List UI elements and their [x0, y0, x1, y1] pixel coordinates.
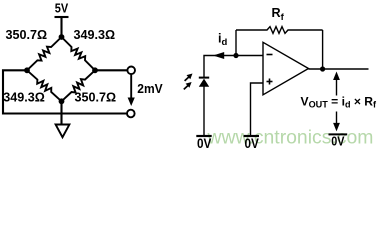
- ground bar 0V non-inverting: [244, 135, 259, 137]
- node right vertex: [92, 67, 98, 73]
- node summing junction: [233, 53, 238, 58]
- current arrowhead i_d: [213, 52, 224, 59]
- light arrow 1: [185, 77, 189, 81]
- photodiode cathode bar: [199, 77, 209, 79]
- svg-text:350.7Ω: 350.7Ω: [75, 90, 117, 104]
- resistor R1 350.7ohm top-left: [27, 37, 62, 70]
- feedback wire left vertical: [235, 30, 237, 56]
- Vout arrowhead down: [333, 123, 340, 131]
- resistor R4 350.7ohm bottom-right: [62, 70, 96, 101]
- ground bar 0V output: [329, 133, 348, 135]
- wire output: [309, 68, 369, 70]
- resistor R3 349.3ohm bottom-left: [27, 70, 62, 101]
- svg-text:5V: 5V: [55, 2, 69, 16]
- feedback resistor Rf: [236, 27, 323, 34]
- svg-text:350.7Ω: 350.7Ω: [6, 28, 48, 42]
- wire non-inverting input to ground: [251, 83, 264, 136]
- svg-text:0V: 0V: [245, 136, 259, 151]
- op-amp U1 triangle: [263, 42, 309, 95]
- light arrow 2: [184, 86, 188, 90]
- node left vertex: [24, 67, 30, 73]
- op-amp minus sign: [267, 54, 273, 56]
- svg-text:0V: 0V: [197, 136, 211, 151]
- svg-text:349.3Ω: 349.3Ω: [74, 28, 116, 42]
- 2mV arrow shaft: [130, 75, 132, 100]
- wire 5V to bridge top vertex: [60, 17, 62, 37]
- wire right vertex to top output terminal: [95, 69, 128, 71]
- ground bar 0V photodiode: [196, 135, 211, 137]
- wire photodiode cathode to inverting input: [204, 56, 263, 78]
- Vout arrow upper shaft: [336, 78, 338, 96]
- svg-text:2mV: 2mV: [137, 82, 163, 96]
- resistor R2 349.3ohm top-right: [62, 37, 96, 70]
- feedback wire right vertical: [322, 30, 324, 69]
- node output junction: [320, 66, 325, 71]
- wire photodiode anode to ground: [203, 87, 205, 136]
- ground symbol (bridge): [56, 125, 70, 138]
- wire bridge bottom vertex to ground: [60, 101, 62, 124]
- supply 5V bar: [55, 16, 69, 18]
- terminal circle top (+): [127, 67, 135, 75]
- node bottom vertex: [59, 98, 65, 104]
- Vout arrow lower shaft: [336, 112, 338, 125]
- wire left vertex to bottom output terminal: [3, 70, 127, 113]
- photodiode triangle: [199, 79, 209, 87]
- op-amp plus sign: [267, 81, 273, 83]
- svg-text:349.3Ω: 349.3Ω: [3, 90, 45, 104]
- 2mV arrowhead: [128, 98, 135, 107]
- svg-text:0V: 0V: [331, 134, 344, 149]
- svg-text:www.cntronics.com: www.cntronics.com: [207, 126, 374, 148]
- node top vertex: [59, 34, 65, 40]
- Vout arrowhead up: [333, 72, 340, 81]
- terminal circle bottom (-): [127, 110, 135, 118]
